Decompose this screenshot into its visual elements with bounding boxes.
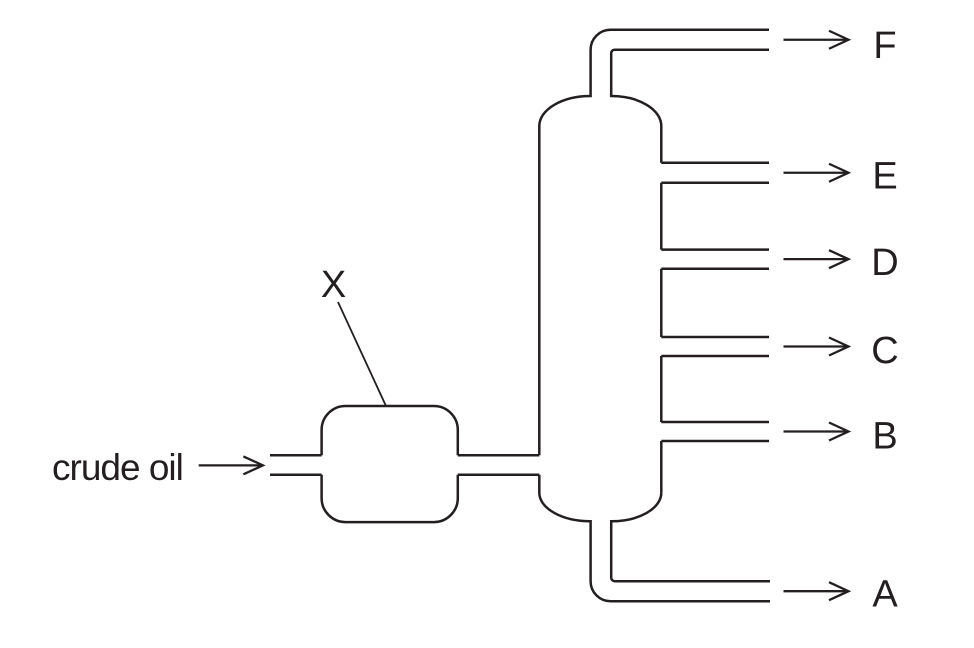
svg-text:X: X [321, 264, 346, 306]
right wall segment C-B [660, 356, 663, 422]
inlet pipe left segment top line [270, 454, 322, 457]
outlet pipe C top line [661, 336, 769, 339]
outlet pipe B top line [661, 421, 769, 424]
left wall lower segment + bottom dome left + bottom neck outer + A pipe bottom line [539, 475, 770, 601]
svg-text:crude oil: crude oil [52, 447, 183, 488]
arrow B [784, 423, 849, 441]
svg-text:F: F [873, 25, 896, 67]
arrow F [784, 31, 849, 49]
inlet pipe right segment bottom line [458, 474, 540, 477]
inlet pipe right segment top line [458, 454, 540, 457]
arrow D [784, 250, 849, 268]
svg-text:B: B [872, 416, 897, 458]
svg-text:A: A [872, 573, 898, 615]
arrow E [784, 164, 849, 182]
crude oil inlet arrow [199, 456, 263, 474]
outlet pipe D bottom line [661, 267, 769, 270]
heater box X upper outline [322, 406, 458, 455]
svg-text:E: E [872, 156, 897, 198]
arrow C [784, 338, 849, 356]
inlet pipe left segment bottom line [270, 474, 322, 477]
svg-text:C: C [871, 330, 898, 372]
heater box X lower outline [322, 475, 458, 522]
right wall segment E-D [660, 183, 663, 250]
F pipe bottom line + top neck inner + top dome right + right wall to E outlet [611, 50, 769, 163]
right wall segment B-bottom [660, 441, 663, 493]
outlet pipe B bottom line [661, 440, 769, 443]
fractionating column left wall + top dome left + top neck outer + F pipe top line [539, 30, 769, 456]
right wall segment D-C [660, 269, 663, 337]
outlet pipe C bottom line [661, 355, 769, 358]
outlet pipe E top line [661, 161, 769, 164]
svg-text:D: D [871, 242, 898, 284]
outlet pipe D top line [661, 248, 769, 251]
bottom dome right + bottom neck inner + A pipe top line [611, 493, 770, 581]
leader line from label X to box [338, 302, 386, 406]
outlet pipe E bottom line [661, 182, 769, 185]
arrow A [784, 582, 849, 600]
